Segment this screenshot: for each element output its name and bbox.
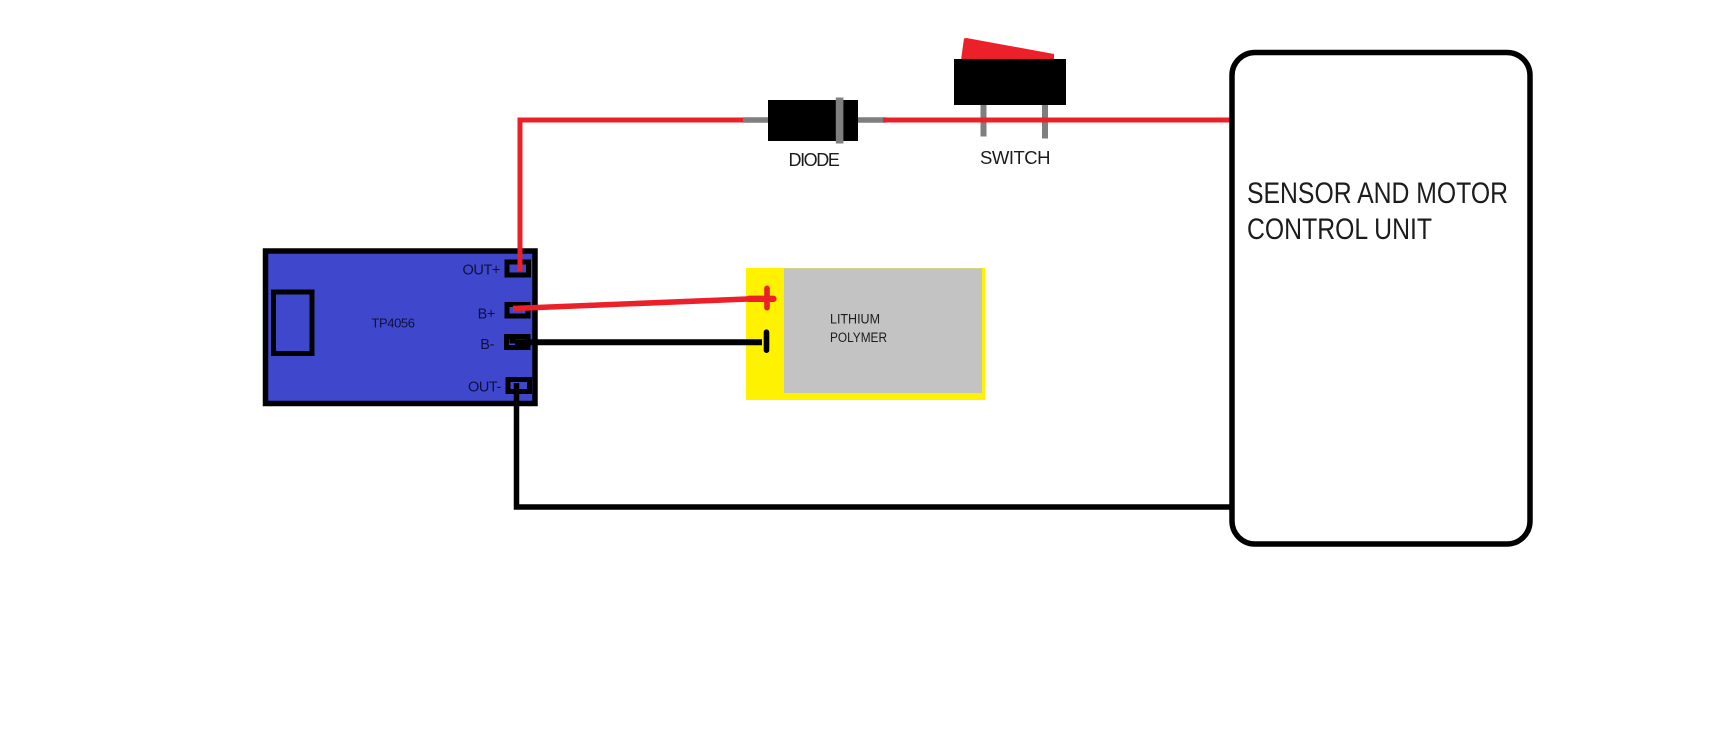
wire red diode to switch to control unit [883,118,1231,123]
battery plus crossbar [749,296,774,302]
switch S1 body [954,59,1066,105]
svg-text:LITHIUM: LITHIUM [830,312,880,327]
battery BT1 gray cell [784,268,982,393]
svg-text:OUT-: OUT- [468,380,502,396]
svg-text:B-: B- [480,337,494,353]
USB connector J1 [274,292,313,354]
svg-text:CONTROL UNIT: CONTROL UNIT [1247,213,1432,246]
charger module U1 TP4056 body [266,251,536,404]
wire black B- hook in pin [510,338,516,344]
switch S1 left pin [981,100,987,137]
diode D1 right lead [856,117,886,123]
battery BT1 yellow body [746,268,985,400]
svg-text:SENSOR AND MOTOR: SENSOR AND MOTOR [1247,177,1508,210]
svg-text:OUT+: OUT+ [463,263,500,279]
pin B+ [507,305,528,317]
pin OUT- [508,380,530,392]
wire red OUT+ up and right to diode [520,120,746,271]
diode D1 cathode band [836,98,844,144]
svg-text:SWITCH: SWITCH [980,147,1050,168]
diode D1 body [768,100,858,141]
svg-text:TP4056: TP4056 [371,316,414,331]
wire black OUT- down and right to control unit [517,383,1233,507]
switch S1 right pin [1042,100,1048,139]
wire black B- to battery [515,339,762,345]
pin OUT+ [507,262,529,275]
svg-text:DIODE: DIODE [788,150,839,170]
pin B- [507,337,529,348]
svg-text:POLYMER: POLYMER [830,330,887,345]
control unit box [1232,53,1530,545]
wire red B+ to battery [513,299,760,309]
switch S1 red lever [961,38,1054,60]
diode D1 left lead [743,117,770,123]
battery minus terminal [764,332,770,350]
svg-text:B+: B+ [478,307,495,323]
battery plus terminal [764,288,770,307]
wire red under switch [950,118,1060,123]
